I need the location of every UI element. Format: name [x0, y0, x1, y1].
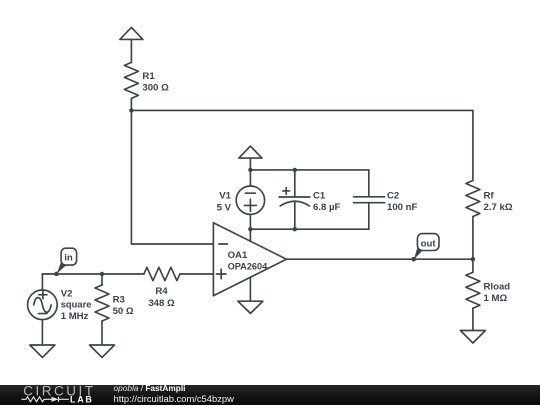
node V+ junction [248, 227, 252, 231]
op-amp OA1 [213, 223, 286, 296]
ground (op-amp) [238, 301, 263, 313]
svg-text:C2: C2 [387, 190, 399, 201]
wire node in to R4 [42, 273, 143, 275]
ground (V2) [30, 345, 55, 357]
resistor R4 [144, 267, 180, 280]
node C1 top junction [293, 168, 297, 172]
wire node A to inverting input [131, 110, 213, 244]
op-amp V+ stub wire [249, 229, 251, 241]
svg-text:V1: V1 [219, 190, 231, 201]
wire op-amp output to node out [286, 258, 473, 260]
svg-text:5 V: 5 V [217, 202, 232, 213]
resistor Rf [466, 181, 480, 217]
capacitor C2 [354, 170, 385, 229]
wire V2 to node in [41, 274, 43, 290]
wire top rail down to Rf [472, 110, 474, 180]
power flag VCC1 (top of R1) [120, 27, 143, 39]
svg-text:Rf: Rf [484, 190, 495, 201]
wire Rload to ground [472, 308, 474, 330]
svg-text:R3: R3 [113, 294, 125, 305]
wire VCC1 to R1 [130, 39, 132, 62]
svg-text:OPA2604: OPA2604 [228, 261, 269, 271]
wire V1 to bottom rail [249, 214, 251, 229]
svg-text:1 MΩ: 1 MΩ [484, 293, 508, 304]
wire node B to C2 (top cap rail) [250, 169, 368, 171]
resistor Rload [466, 272, 480, 308]
svg-text:R4: R4 [155, 286, 168, 297]
power flag VCC2 (top of V1) [239, 146, 262, 158]
resistor R3 [95, 285, 109, 321]
op-amp V- stub wire [249, 277, 251, 301]
node C1 bottom junction [293, 227, 297, 231]
wire bottom cap rail [250, 228, 368, 230]
node in-R3 junction [100, 272, 104, 276]
svg-text:1 MHz: 1 MHz [61, 311, 89, 322]
svg-text:348 Ω: 348 Ω [148, 298, 175, 309]
svg-text:Rload: Rload [484, 281, 511, 292]
svg-text:300 Ω: 300 Ω [142, 83, 169, 94]
ground (Rload) [460, 331, 485, 344]
wire node B to V1 [249, 170, 251, 186]
wire R3 to ground [101, 321, 103, 345]
svg-text:out: out [421, 238, 437, 249]
ground (R3) [90, 345, 115, 357]
svg-text:OA1: OA1 [228, 250, 248, 261]
wire node in-R3 to R3 [101, 274, 103, 285]
svg-text:LAB: LAB [70, 394, 94, 404]
capacitor C1 [279, 170, 310, 229]
flag out [411, 234, 439, 262]
wire R4 to non-inverting input [180, 273, 214, 275]
svg-text:R1: R1 [142, 71, 155, 82]
wire VCC2 to node B [249, 158, 251, 170]
wire R1 to node A [130, 98, 132, 110]
voltage source V1 [236, 186, 264, 214]
svg-text:100 nF: 100 nF [387, 202, 418, 213]
svg-text:square: square [61, 299, 92, 310]
CircuitLab logo [0, 385, 110, 405]
svg-text:6.8 µF: 6.8 µF [313, 202, 341, 213]
wire Rf to node out [472, 217, 474, 260]
svg-text:2.7 kΩ: 2.7 kΩ [484, 202, 513, 213]
svg-text:V2: V2 [61, 288, 73, 299]
node out junction [471, 257, 475, 261]
flag in [54, 248, 76, 276]
node B junction [248, 168, 252, 172]
wire node A to Rf (top feedback rail) [131, 109, 473, 111]
svg-text:in: in [64, 253, 73, 264]
svg-text:50 Ω: 50 Ω [113, 306, 134, 317]
svg-text:C1: C1 [313, 190, 326, 201]
wire node out to Rload [472, 259, 474, 272]
resistor R1 [124, 62, 138, 98]
wire V2 to ground [41, 320, 43, 345]
footer bar [0, 385, 540, 405]
voltage source V2 [28, 290, 58, 320]
footer credit text [114, 384, 186, 393]
node A junction [129, 108, 133, 112]
